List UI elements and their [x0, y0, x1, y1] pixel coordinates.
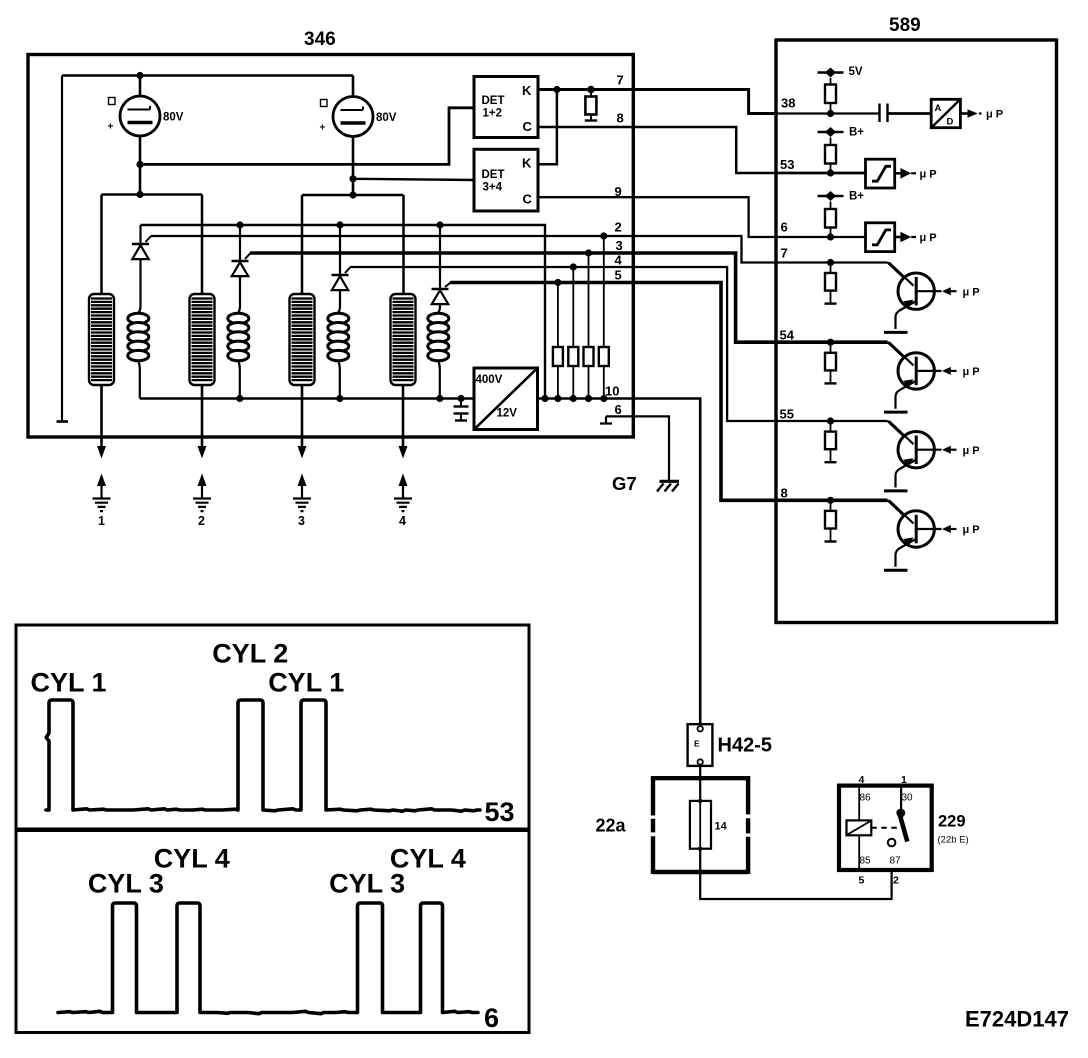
node cap2 det tap — [349, 175, 356, 182]
node cap1 top — [136, 72, 143, 79]
svg-text:80V: 80V — [376, 112, 397, 124]
node cathode bus j3 — [336, 221, 343, 228]
transistor Q1 — [884, 263, 980, 333]
thyristor V1 — [132, 225, 151, 315]
svg-text:30: 30 — [902, 793, 914, 804]
ignition coil secondary T4s — [391, 294, 416, 385]
wire pin6 to G7 — [606, 416, 669, 480]
svg-text:μ P: μ P — [963, 524, 980, 536]
node R1 bottom — [554, 395, 561, 402]
capacitor C4 series — [880, 104, 888, 123]
svg-text:55: 55 — [780, 407, 794, 422]
svg-text:B+: B+ — [849, 127, 864, 139]
thyristor V4 — [432, 225, 451, 315]
svg-text:3: 3 — [298, 514, 305, 528]
ignition coil primary T2p — [228, 313, 249, 398]
svg-text:3: 3 — [616, 238, 623, 253]
node ch54 — [827, 339, 834, 346]
svg-text:D: D — [947, 117, 954, 128]
resistor R7 — [825, 138, 836, 174]
fuse holder box 22a — [596, 776, 749, 874]
svg-text:14: 14 — [715, 821, 728, 833]
spark gap output 3 — [293, 446, 311, 528]
svg-text:CYL 1: CYL 1 — [268, 668, 344, 698]
wire ch38 — [776, 112, 879, 114]
transistor Q2 — [884, 342, 980, 412]
svg-text:54: 54 — [780, 328, 795, 343]
svg-text:12V: 12V — [497, 408, 518, 420]
svg-text:G7: G7 — [612, 473, 637, 494]
supply B+ ch53 — [818, 127, 865, 139]
svg-text:4: 4 — [859, 774, 865, 786]
spark gap output 4 — [394, 446, 412, 528]
svg-text:22a: 22a — [596, 816, 627, 836]
wire gate bus pin3 to 589 pin54 — [250, 253, 888, 342]
waveform trace 53 — [46, 700, 480, 811]
oscillogram box bottom — [16, 831, 529, 1034]
svg-text:CYL 4: CYL 4 — [154, 844, 230, 874]
ignition coil secondary T1s — [89, 294, 114, 385]
terminal pin6 stub — [600, 416, 612, 423]
svg-text:4: 4 — [615, 253, 623, 268]
svg-text:7: 7 — [617, 73, 624, 88]
svg-text:5: 5 — [615, 268, 622, 283]
node cap1 bar tap — [136, 191, 143, 198]
svg-text:6: 6 — [615, 402, 622, 417]
node rail coil4 — [436, 395, 443, 402]
resistor R8 — [825, 202, 836, 238]
wire to DET 3+4 input — [353, 179, 474, 180]
svg-text:A: A — [935, 103, 942, 114]
svg-text:1+2: 1+2 — [483, 108, 503, 120]
svg-text:C: C — [523, 192, 533, 207]
waveform trace 6 — [58, 903, 478, 1014]
node R2 top — [570, 263, 577, 270]
node R3 bottom — [585, 395, 592, 402]
ground G7 — [612, 473, 679, 494]
supply B+ ch6 — [818, 191, 865, 203]
arrow ch53 to uP — [895, 168, 937, 181]
svg-text:μ P: μ P — [963, 287, 980, 299]
wire gate bus pin2 to 589 pin7 — [151, 236, 888, 263]
svg-text:1: 1 — [901, 774, 907, 786]
svg-text:CYL 2: CYL 2 — [212, 639, 288, 669]
node rail coil3 — [336, 395, 343, 402]
resistor R11 — [825, 421, 837, 462]
converter U4 A/D — [931, 99, 960, 127]
wire K bus pin7 to 589 pin38 — [538, 90, 776, 114]
node resistor R5 tap — [587, 86, 595, 94]
resistor R10 — [825, 342, 837, 383]
svg-text:E: E — [694, 739, 700, 749]
node R3 top — [585, 249, 592, 256]
resistor R12 — [825, 500, 837, 541]
capacitor C3 rail — [454, 399, 469, 421]
svg-text:2: 2 — [615, 220, 622, 235]
svg-text:μ P: μ P — [963, 445, 980, 457]
svg-text:(22b E): (22b E) — [938, 835, 969, 846]
svg-text:2: 2 — [198, 514, 205, 528]
ignition coil primary T4p — [428, 313, 449, 398]
svg-text:53: 53 — [485, 797, 515, 827]
wire top supply — [62, 74, 353, 76]
wire DET3+4 C pin9 to 589 pin6 — [538, 197, 776, 237]
node ch53 — [827, 169, 834, 176]
svg-text:CYL 3: CYL 3 — [88, 869, 164, 899]
thyristor V2 — [232, 225, 251, 315]
resistor R1 — [553, 283, 563, 399]
wire bar2 drops — [302, 195, 404, 295]
wire cathode bus — [141, 225, 546, 399]
svg-text:CYL 3: CYL 3 — [329, 869, 405, 899]
node R4 bottom — [600, 395, 607, 402]
svg-text:9: 9 — [615, 184, 622, 199]
svg-text:B+: B+ — [849, 191, 864, 203]
svg-text:K: K — [522, 156, 532, 171]
fuse F14 — [690, 799, 728, 851]
svg-text:+: + — [320, 123, 326, 134]
node R1 top — [554, 279, 561, 286]
svg-text:53: 53 — [780, 157, 794, 172]
node rail cap — [457, 395, 464, 402]
svg-text:8: 8 — [617, 111, 624, 126]
wire gate bus pin4 to 589 pin55 — [350, 267, 888, 421]
svg-text:+: + — [108, 122, 114, 133]
svg-text:87: 87 — [890, 856, 902, 867]
node K join — [553, 86, 560, 93]
comparator U6 hysteresis — [866, 223, 895, 252]
wire ch53 — [776, 172, 866, 175]
svg-text:μ P: μ P — [986, 109, 1003, 121]
transistor Q4 — [884, 500, 980, 570]
svg-text:DET: DET — [482, 169, 505, 181]
spark gap output 1 — [93, 446, 111, 528]
wire secondary outputs — [102, 385, 404, 446]
svg-text:5: 5 — [859, 875, 865, 887]
wire primary return rail — [140, 399, 700, 725]
wire coil bar 1+2 — [102, 193, 203, 196]
svg-text:10: 10 — [605, 384, 619, 399]
svg-text:H42-5: H42-5 — [718, 735, 772, 757]
node cap2 bar tap — [349, 191, 356, 198]
transistor Q3 — [884, 421, 980, 491]
block U2 DET 3+4 — [474, 149, 538, 211]
svg-text:μ P: μ P — [920, 232, 937, 244]
resistor R3 — [584, 253, 594, 399]
wire coil bar 3+4 — [302, 194, 404, 197]
svg-text:E724D147: E724D147 — [965, 1007, 1069, 1032]
svg-text:C: C — [523, 119, 533, 134]
module box 346 — [28, 29, 633, 437]
svg-text:2: 2 — [893, 875, 899, 887]
resistor R5 — [585, 90, 597, 121]
svg-text:4: 4 — [399, 514, 406, 528]
resistor R9 — [825, 263, 837, 304]
svg-text:μ P: μ P — [920, 169, 937, 181]
wire cap1 leads — [139, 76, 142, 195]
supply 5V — [818, 66, 863, 78]
ignition coil primary T3p — [328, 313, 349, 398]
thyristor V3 — [332, 225, 351, 315]
node ch55 — [827, 417, 834, 424]
capacitor C1 80V — [108, 96, 184, 136]
wire DET3+4 K riser — [538, 90, 557, 165]
svg-text:80V: 80V — [163, 112, 184, 124]
svg-text:μ P: μ P — [963, 366, 980, 378]
node R2 bottom — [570, 395, 577, 402]
wire C pin8 to 589 pin53 — [538, 127, 776, 173]
capacitor C2 80V — [320, 97, 397, 137]
ignition coil secondary T3s — [290, 294, 315, 385]
node ch38 — [827, 110, 834, 117]
node ch7 — [827, 259, 834, 266]
oscillogram box top — [16, 625, 529, 829]
wire H42-5 to fuse — [699, 766, 701, 801]
svg-text:229: 229 — [938, 813, 966, 831]
terminal T left — [57, 420, 69, 423]
arrow AD to uP — [960, 109, 1003, 121]
svg-text:85: 85 — [860, 856, 872, 867]
svg-text:589: 589 — [889, 15, 921, 36]
node rail coil2 — [236, 395, 243, 402]
svg-text:3+4: 3+4 — [483, 182, 503, 194]
svg-text:5V: 5V — [849, 66, 863, 78]
spark gap output 2 — [193, 446, 211, 528]
node ch8 — [827, 497, 834, 504]
wire bar1 drops — [102, 195, 203, 296]
svg-text:6: 6 — [484, 1003, 499, 1033]
relay 229 — [839, 774, 969, 887]
wire cap2 leads — [352, 76, 355, 196]
svg-text:7: 7 — [781, 246, 788, 261]
node cathode bus j2 — [236, 221, 243, 228]
arrow ch6 to uP — [895, 232, 937, 244]
wire to DET 1+2 input — [140, 108, 474, 165]
node cap1 det tap — [136, 161, 143, 168]
svg-text:8: 8 — [781, 486, 788, 501]
ignition coil secondary T2s — [190, 294, 215, 385]
svg-text:6: 6 — [781, 220, 788, 235]
wire ch6 — [776, 236, 866, 238]
svg-text:1: 1 — [98, 514, 105, 528]
wire gate bus pin5 to 589 pin8 — [450, 283, 888, 501]
svg-text:86: 86 — [860, 793, 872, 804]
comparator U5 hysteresis — [866, 159, 895, 188]
wire left drop — [61, 76, 63, 421]
resistor R2 — [568, 267, 578, 399]
ECU box 589 — [776, 15, 1057, 623]
ignition coil primary T1p — [128, 313, 149, 398]
block U1 DET 1+2 — [474, 77, 538, 138]
node ch6 — [827, 233, 834, 240]
svg-text:DET: DET — [482, 95, 505, 107]
wire fuse to relay — [700, 846, 891, 899]
node cathode bus j4 — [436, 221, 443, 228]
wire cap to AD — [888, 112, 932, 115]
svg-text:38: 38 — [781, 96, 795, 111]
node rail cathode-bus — [541, 395, 548, 402]
svg-text:400V: 400V — [476, 374, 503, 386]
svg-text:K: K — [522, 83, 532, 98]
svg-text:CYL 1: CYL 1 — [31, 668, 107, 698]
resistor R4 — [599, 236, 609, 399]
converter U3 400V/12V — [474, 368, 538, 430]
resistor R6 — [825, 78, 836, 114]
connector H42-5 — [688, 724, 772, 766]
node R4 top — [600, 232, 607, 239]
svg-text:346: 346 — [304, 29, 336, 50]
